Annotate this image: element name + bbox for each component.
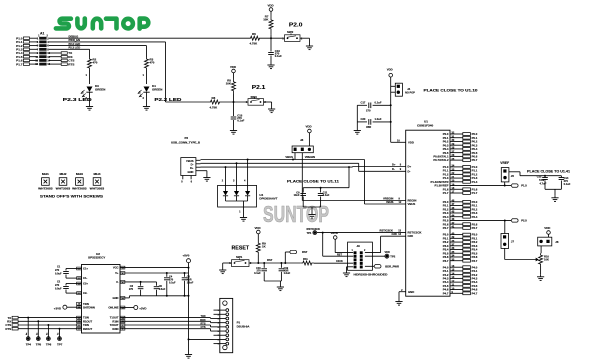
pin VDD of U1 <box>397 140 414 145</box>
switch SW3 <box>246 95 267 105</box>
svg-text:+3VD: +3VD <box>331 231 338 235</box>
svg-text:R2OUT: R2OUT <box>83 327 92 331</box>
net stub RTS to U2 <box>5 327 81 331</box>
svg-text:RTS: RTS <box>68 62 74 66</box>
wire VDD to U1 <box>390 104 406 142</box>
svg-text:0.5uF: 0.5uF <box>159 288 166 291</box>
svg-text:0.1uF: 0.1uF <box>375 101 382 105</box>
svg-text:D+: D+ <box>190 166 194 170</box>
resistor R9 <box>256 241 266 264</box>
svg-text:BDR_PWR: BDR_PWR <box>385 265 399 269</box>
LED D4 <box>138 70 162 104</box>
pin P4.4 of U1 <box>443 280 478 284</box>
wire U2 to DB9 CTS <box>120 326 214 331</box>
svg-text:0.1uF: 0.1uF <box>323 194 330 197</box>
svg-text:TP2: TP2 <box>390 254 395 258</box>
power +3VD for header <box>331 231 354 253</box>
pin P0.4 of U1 <box>443 147 478 151</box>
svg-text:TP1: TP1 <box>307 231 312 235</box>
wire caps to ground <box>545 189 561 195</box>
pin labels D+ D- at U1 <box>392 162 402 171</box>
svg-text:SW3: SW3 <box>251 95 258 99</box>
connector A1 pin row P1.6 <box>16 59 51 63</box>
jumper J8 <box>285 138 315 159</box>
net tag P1.5 <box>511 184 527 188</box>
pin P1.4/CNVSTR of U1 <box>430 180 477 184</box>
svg-text:VBUS: VBUS <box>386 200 394 204</box>
LED D3 <box>81 70 105 104</box>
svg-text:TP5: TP5 <box>36 343 42 347</box>
pin P3.6 of U1 <box>443 255 478 259</box>
label P2.0 <box>289 22 303 28</box>
ground for C15 <box>230 128 237 134</box>
label HDR2X5-SHROUDED <box>354 273 388 277</box>
svg-text:P3: P3 <box>185 136 189 140</box>
pin P2.2 of U1 <box>443 207 478 211</box>
svg-text:SW2: SW2 <box>287 30 294 34</box>
pin P0.6/XTAL1 of U1 <box>433 154 477 158</box>
svg-text:C2D: C2D <box>408 234 414 238</box>
wire U1 GND to ground <box>399 292 406 299</box>
wire cap bottom rail to ground <box>141 295 190 297</box>
capacitor C8 <box>182 273 194 296</box>
pin P3.2 of U1 <box>443 240 478 244</box>
wire U2 to DB9 TXD <box>120 315 214 318</box>
wire J8 pin1 to VBUS <box>294 153 296 160</box>
wire J5 to P1.5 <box>504 182 506 186</box>
pin P0.0 of U1 <box>443 132 478 136</box>
pin P1.6 of U1 <box>443 187 478 191</box>
label P2.1 <box>252 85 266 91</box>
svg-text:D-: D- <box>392 167 395 171</box>
net tag BDR_PWR <box>365 265 399 269</box>
svg-text:P4.7: P4.7 <box>443 291 449 295</box>
svg-text:0.1uF: 0.1uF <box>275 54 282 58</box>
pin P1.0 of U1 <box>443 165 478 169</box>
svg-text:HDR2X5-SHROUDED: HDR2X5-SHROUDED <box>354 273 388 277</box>
header J5 <box>501 168 514 182</box>
capacitor C9 <box>294 188 306 207</box>
pin P2.5 of U1 long wire <box>443 218 455 222</box>
resistor R8 <box>209 96 222 110</box>
svg-text:P2.1: P2.1 <box>252 85 266 91</box>
resistor R11 <box>301 257 314 265</box>
test point TP5 <box>36 320 42 346</box>
net tag P2.5 <box>511 219 527 223</box>
pin P1.3 of U1 <box>443 176 478 180</box>
SUNTOP logo <box>56 19 148 29</box>
svg-text:C2-: C2- <box>83 291 87 295</box>
wire cap rail top <box>303 167 349 189</box>
wire A1 row3 to LED D4 <box>49 46 147 57</box>
pin P4.6 of U1 <box>443 287 478 291</box>
power VDD for J6 <box>544 226 550 237</box>
test point TP2 <box>365 251 396 259</box>
net stub TX <box>49 51 73 55</box>
svg-text:WHT2053: WHT2053 <box>56 187 71 190</box>
svg-text:RTS: RTS <box>201 323 206 326</box>
wire cap rail bottom <box>303 207 320 212</box>
svg-text:VDD: VDD <box>408 140 414 144</box>
svg-text:J9: J9 <box>357 244 361 248</box>
note PLACE CLOSE TO U1.11 <box>287 179 339 183</box>
wire U4 pin3 to D- <box>236 163 238 185</box>
svg-text:C8051F340: C8051F340 <box>417 124 433 128</box>
IC U2 SP3232ECY body <box>82 252 121 333</box>
label RESET <box>232 246 250 252</box>
connector A1 pin row P1.7 <box>16 62 51 66</box>
ground for U4 <box>240 215 247 221</box>
pin P0.1 of U1 <box>443 135 478 139</box>
capacitor C19 <box>279 263 291 281</box>
svg-text:VDD: VDD <box>306 124 312 128</box>
svg-text:GND: GND <box>188 170 194 174</box>
svg-text:+3VD: +3VD <box>139 307 146 311</box>
svg-text:V+: V+ <box>115 271 119 275</box>
wire U2 to DB9 RXD <box>120 319 214 323</box>
svg-text:CTS: CTS <box>201 326 206 329</box>
svg-text:R6: R6 <box>252 32 256 36</box>
svg-text:TP4: TP4 <box>26 343 32 347</box>
capacitor C1 <box>55 266 82 279</box>
svg-text:VREF: VREF <box>500 161 509 165</box>
svg-text:ONLINE: ONLINE <box>108 306 118 310</box>
label VREF <box>500 161 509 165</box>
wire D- <box>201 162 406 171</box>
power +5V0 for U2 <box>183 253 191 352</box>
svg-text:P1.5: P1.5 <box>521 184 527 188</box>
test point TP7 <box>57 328 63 347</box>
ground for SW1 <box>219 268 226 274</box>
svg-text:C2CK: C2CK <box>336 260 343 263</box>
wire J6 to R10 <box>540 246 542 253</box>
svg-text:RST/C2CK: RST/C2CK <box>380 228 393 232</box>
wire P2.5 to J7 <box>504 220 506 233</box>
header J9 <box>348 242 373 270</box>
power +3VD at U2 online <box>120 306 147 311</box>
svg-text:270: 270 <box>366 109 371 113</box>
svg-text:T1OUT: T1OUT <box>110 316 119 320</box>
svg-text:SP3232ECY: SP3232ECY <box>88 256 106 260</box>
ground for +5V0 rail <box>185 352 192 358</box>
power VDD for J4 <box>387 68 393 106</box>
capacitor C11 <box>318 188 330 207</box>
svg-text:D+: D+ <box>408 165 412 169</box>
wire VCC to +5V0 <box>120 267 190 269</box>
svg-text:+5V0: +5V0 <box>183 253 190 257</box>
USB connector P3 <box>171 136 201 183</box>
svg-text:P3.7: P3.7 <box>472 259 478 263</box>
svg-text:RXD: RXD <box>200 319 205 322</box>
wire U4 pin2 to D+ <box>225 167 227 185</box>
connector P1 DSUB-9A <box>214 298 251 352</box>
note PLACE CLOSE TO U1.41 <box>527 169 570 173</box>
svg-text:P1.4: P1.4 <box>472 180 478 184</box>
wire R8 to SW3 <box>222 101 249 103</box>
svg-text:MH2: MH2 <box>60 172 68 176</box>
svg-text:P2.7: P2.7 <box>443 226 449 230</box>
svg-text:1.0uF: 1.0uF <box>375 117 382 121</box>
svg-text:VREGIN: VREGIN <box>305 155 315 159</box>
svg-text:R1IN: R1IN <box>112 319 118 323</box>
wire C2D <box>365 236 406 252</box>
pin P2.7 of U1 <box>443 226 478 230</box>
svg-text:RST/C2CK: RST/C2CK <box>307 227 320 231</box>
pin P4.3 of U1 <box>443 276 478 280</box>
pin P4.5 of U1 <box>443 284 478 288</box>
ground for C13 <box>267 63 274 69</box>
label P2.3 LED <box>63 97 92 102</box>
wire VBUS <box>201 159 406 205</box>
svg-text:R2IN: R2IN <box>112 327 118 331</box>
wire A1 row4 to LED D3 <box>49 49 90 57</box>
svg-text:R11: R11 <box>303 257 308 261</box>
svg-text:MH1: MH1 <box>42 172 50 176</box>
IC U1 C8051F340 body <box>406 120 450 297</box>
ground for SW2 <box>306 44 313 50</box>
svg-text:RESET: RESET <box>232 246 250 252</box>
svg-text:C2+: C2+ <box>83 282 88 286</box>
connector A1 pin row P1.2 <box>16 44 49 48</box>
svg-text:P2.4: P2.4 <box>472 215 478 219</box>
capacitor C12 <box>537 175 548 190</box>
svg-text:DSUB-9A: DSUB-9A <box>237 324 251 328</box>
capacitor C17 <box>357 101 390 113</box>
pin P1.5/VREF of U1 long wire <box>435 183 455 187</box>
pin P2.1 of U1 <box>443 203 478 207</box>
svg-text:GREEN: GREEN <box>95 87 105 91</box>
resistor R3 <box>145 57 155 70</box>
svg-text:D-: D- <box>191 163 194 167</box>
wire V+ rail <box>120 272 189 274</box>
svg-text:MH4: MH4 <box>94 172 102 176</box>
svg-text:15: 15 <box>35 62 38 66</box>
power VDD for R5 <box>230 65 236 79</box>
svg-text:X5R: X5R <box>366 125 371 129</box>
wire C2CK to header <box>323 233 354 257</box>
wire D+ <box>201 166 406 168</box>
svg-text:RST: RST <box>267 258 273 262</box>
test point TP6 <box>46 324 52 347</box>
svg-text:TP6: TP6 <box>46 343 52 347</box>
ground for C9 C11 <box>308 212 315 218</box>
standoff MH3 <box>72 172 87 190</box>
switch SW1 <box>229 255 252 266</box>
svg-text:1.0uF: 1.0uF <box>284 272 291 275</box>
capacitor C4 <box>164 273 176 296</box>
connector A1 pin numbers <box>38 34 48 37</box>
resistor R6 <box>249 32 262 45</box>
svg-text:RST: RST <box>302 250 308 254</box>
svg-text:VDD: VDD <box>255 226 261 230</box>
pin P0.7/XTAL2 of U1 <box>433 158 477 162</box>
standoff MH2 <box>56 172 71 190</box>
svg-text:0.1uF: 0.1uF <box>564 182 571 186</box>
svg-text:R1OUT: R1OUT <box>83 319 92 323</box>
svg-text:STAND OFF'S WITH SCREWS: STAND OFF'S WITH SCREWS <box>40 195 104 199</box>
header J6 <box>538 237 559 246</box>
power VDD for R7 <box>268 4 274 15</box>
svg-text:RTS: RTS <box>5 327 11 331</box>
net stub TX to U2 <box>7 316 81 320</box>
resistor R7 <box>263 15 273 39</box>
connector A1 pin row P1.3 <box>16 47 49 51</box>
note PLACE CLOSE TO U1.10 <box>424 88 478 92</box>
svg-text:J6: J6 <box>555 240 559 244</box>
wire SW3 to ground <box>264 102 272 107</box>
svg-text:PLACE CLOSE TO U1.41: PLACE CLOSE TO U1.41 <box>527 169 570 173</box>
pin P4.7 of U1 <box>443 291 478 295</box>
pin P2.3 of U1 <box>443 211 478 215</box>
wire J7 to R10 wiper <box>505 248 535 259</box>
pin P4.1 of U1 <box>443 269 478 273</box>
ground for R10 <box>537 274 544 280</box>
capacitor C2 <box>55 281 82 294</box>
svg-text:GND: GND <box>113 296 119 300</box>
svg-text:T2IN: T2IN <box>83 323 89 327</box>
svg-text:P1.7: P1.7 <box>16 62 23 66</box>
svg-text:VBUS: VBUS <box>285 155 293 159</box>
svg-text:10K: 10K <box>544 258 549 262</box>
net stub RX <box>49 55 74 59</box>
pin labels RST C2D at U1 <box>380 228 402 236</box>
pin labels left of U2 <box>77 267 95 331</box>
svg-text:270: 270 <box>129 288 134 291</box>
pin P1.1 of U1 <box>443 168 478 172</box>
svg-text:J7: J7 <box>511 239 515 243</box>
svg-text:P1.7: P1.7 <box>443 191 449 195</box>
switch SW2 <box>282 30 303 41</box>
pin P3.0 of U1 <box>443 232 478 236</box>
svg-text:A1: A1 <box>40 32 45 36</box>
label P2.2 LED <box>154 97 181 102</box>
wire caps to ground <box>264 281 281 285</box>
svg-text:J4: J4 <box>407 87 411 91</box>
svg-text:PLACE CLOSE TO U1.10: PLACE CLOSE TO U1.10 <box>424 88 478 92</box>
power +3VD for U2 shutdown <box>54 305 82 310</box>
svg-text:4.7uF: 4.7uF <box>540 181 547 185</box>
svg-text:NO POP: NO POP <box>405 92 415 95</box>
ground for U1 <box>395 299 402 305</box>
svg-text:P1.7: P1.7 <box>472 191 478 195</box>
connector A1 label <box>40 32 45 36</box>
net stub RTS <box>49 62 75 66</box>
pin P4.0 of U1 <box>443 265 478 269</box>
wire caps left rail <box>356 105 358 128</box>
wire A1 row2 to P2.1 branch <box>49 42 209 102</box>
svg-text:RST: RST <box>337 253 342 256</box>
svg-text:T2IN: T2IN <box>83 302 89 306</box>
wire J8 pin2 to REGIN <box>302 153 405 201</box>
connector A1 pin row P1.5 <box>16 55 51 59</box>
ground for C17 C20 <box>354 128 361 134</box>
connector A1 pin row P1.1 <box>16 40 49 44</box>
ground for D4 <box>143 104 150 110</box>
svg-text:P3.7: P3.7 <box>443 259 449 263</box>
svg-text:C1-: C1- <box>83 276 87 280</box>
net stub CTS to U2 <box>5 323 81 327</box>
connector A1 pin row P1.0 <box>16 36 49 40</box>
wire RST net <box>249 258 301 264</box>
svg-text:VCC: VCC <box>113 266 119 270</box>
pin labels REGIN VBUS at U1 <box>383 196 402 204</box>
pin P3.7 of U1 <box>443 258 478 262</box>
capacitor C5 <box>154 282 166 296</box>
capacitor C6 <box>129 282 144 296</box>
pin P4.2 of U1 <box>443 272 478 276</box>
svg-text:V-: V- <box>116 280 119 284</box>
wire P2.5 <box>450 219 511 221</box>
pin P3.4 of U1 <box>443 247 478 251</box>
svg-text:1.0uF: 1.0uF <box>187 282 194 285</box>
svg-text:D-: D- <box>408 169 411 173</box>
net labels on A1 wires <box>69 34 81 49</box>
test point TP1 <box>307 227 320 235</box>
ground for P3 <box>203 175 210 181</box>
svg-text:10nF: 10nF <box>294 194 300 197</box>
net tag RST <box>285 250 307 263</box>
SUNTOP watermark <box>263 201 329 227</box>
ground for C12 C14 <box>551 195 558 201</box>
wire SW1 to ground <box>223 263 232 268</box>
svg-text:470: 470 <box>150 61 155 65</box>
capacitor C13 <box>268 38 282 62</box>
wire ground to DB9 pin5 <box>188 338 214 340</box>
svg-text:SUNTOP: SUNTOP <box>263 201 329 227</box>
svg-text:USB_CONN_TYPE_B: USB_CONN_TYPE_B <box>171 141 200 145</box>
ground for SW3 <box>268 107 275 113</box>
svg-text:10K: 10K <box>226 82 232 86</box>
power VDD for J8 <box>306 124 312 146</box>
svg-text:470: 470 <box>93 61 98 65</box>
svg-text:13: 13 <box>35 59 38 63</box>
standoff MH4 <box>90 172 105 190</box>
svg-text:P2.5: P2.5 <box>521 219 527 223</box>
svg-text:R8: R8 <box>212 96 216 100</box>
svg-text:GREEN: GREEN <box>152 87 162 91</box>
pin labels D+ D- REGIN inside U1 <box>408 165 422 239</box>
svg-text:PLACE CLOSE TO U1.11: PLACE CLOSE TO U1.11 <box>287 179 339 183</box>
pin P3.3 of U1 <box>443 243 478 247</box>
svg-text:P4.7: P4.7 <box>472 291 478 295</box>
resistor R5 <box>226 79 236 103</box>
svg-text:VDD: VDD <box>268 4 274 8</box>
svg-text:DP0303AAVT: DP0303AAVT <box>259 196 277 200</box>
svg-text:TXD: TXD <box>201 315 206 318</box>
capacitor C15 <box>231 102 245 128</box>
wire P3 GND pin to ground <box>196 171 207 175</box>
svg-text:MH3: MH3 <box>76 172 84 176</box>
pin P2.6 of U1 <box>443 222 478 226</box>
pin P3.5 of U1 <box>443 251 478 255</box>
pin GND of U1 <box>401 289 414 294</box>
wire P1.5 VREF <box>450 185 511 187</box>
svg-text:0.1uF: 0.1uF <box>169 282 176 285</box>
svg-text:P2.2 LED: P2.2 LED <box>154 97 181 102</box>
svg-text:4.75K: 4.75K <box>210 106 219 110</box>
wire U4 pin4 to VBUS <box>247 160 249 186</box>
svg-text:VBUS: VBUS <box>186 159 194 163</box>
svg-text:VDD: VDD <box>230 65 236 69</box>
wire U4 pin1 to ground <box>239 207 243 215</box>
capacitor C14 <box>559 176 571 190</box>
svg-text:P2.0: P2.0 <box>289 22 303 28</box>
net stub CTS <box>49 59 75 63</box>
svg-text:D+: D+ <box>392 162 396 166</box>
svg-text:0.1uF: 0.1uF <box>254 272 261 275</box>
svg-text:P0.7/XTAL2: P0.7/XTAL2 <box>433 158 449 162</box>
svg-text:J5: J5 <box>511 174 515 178</box>
